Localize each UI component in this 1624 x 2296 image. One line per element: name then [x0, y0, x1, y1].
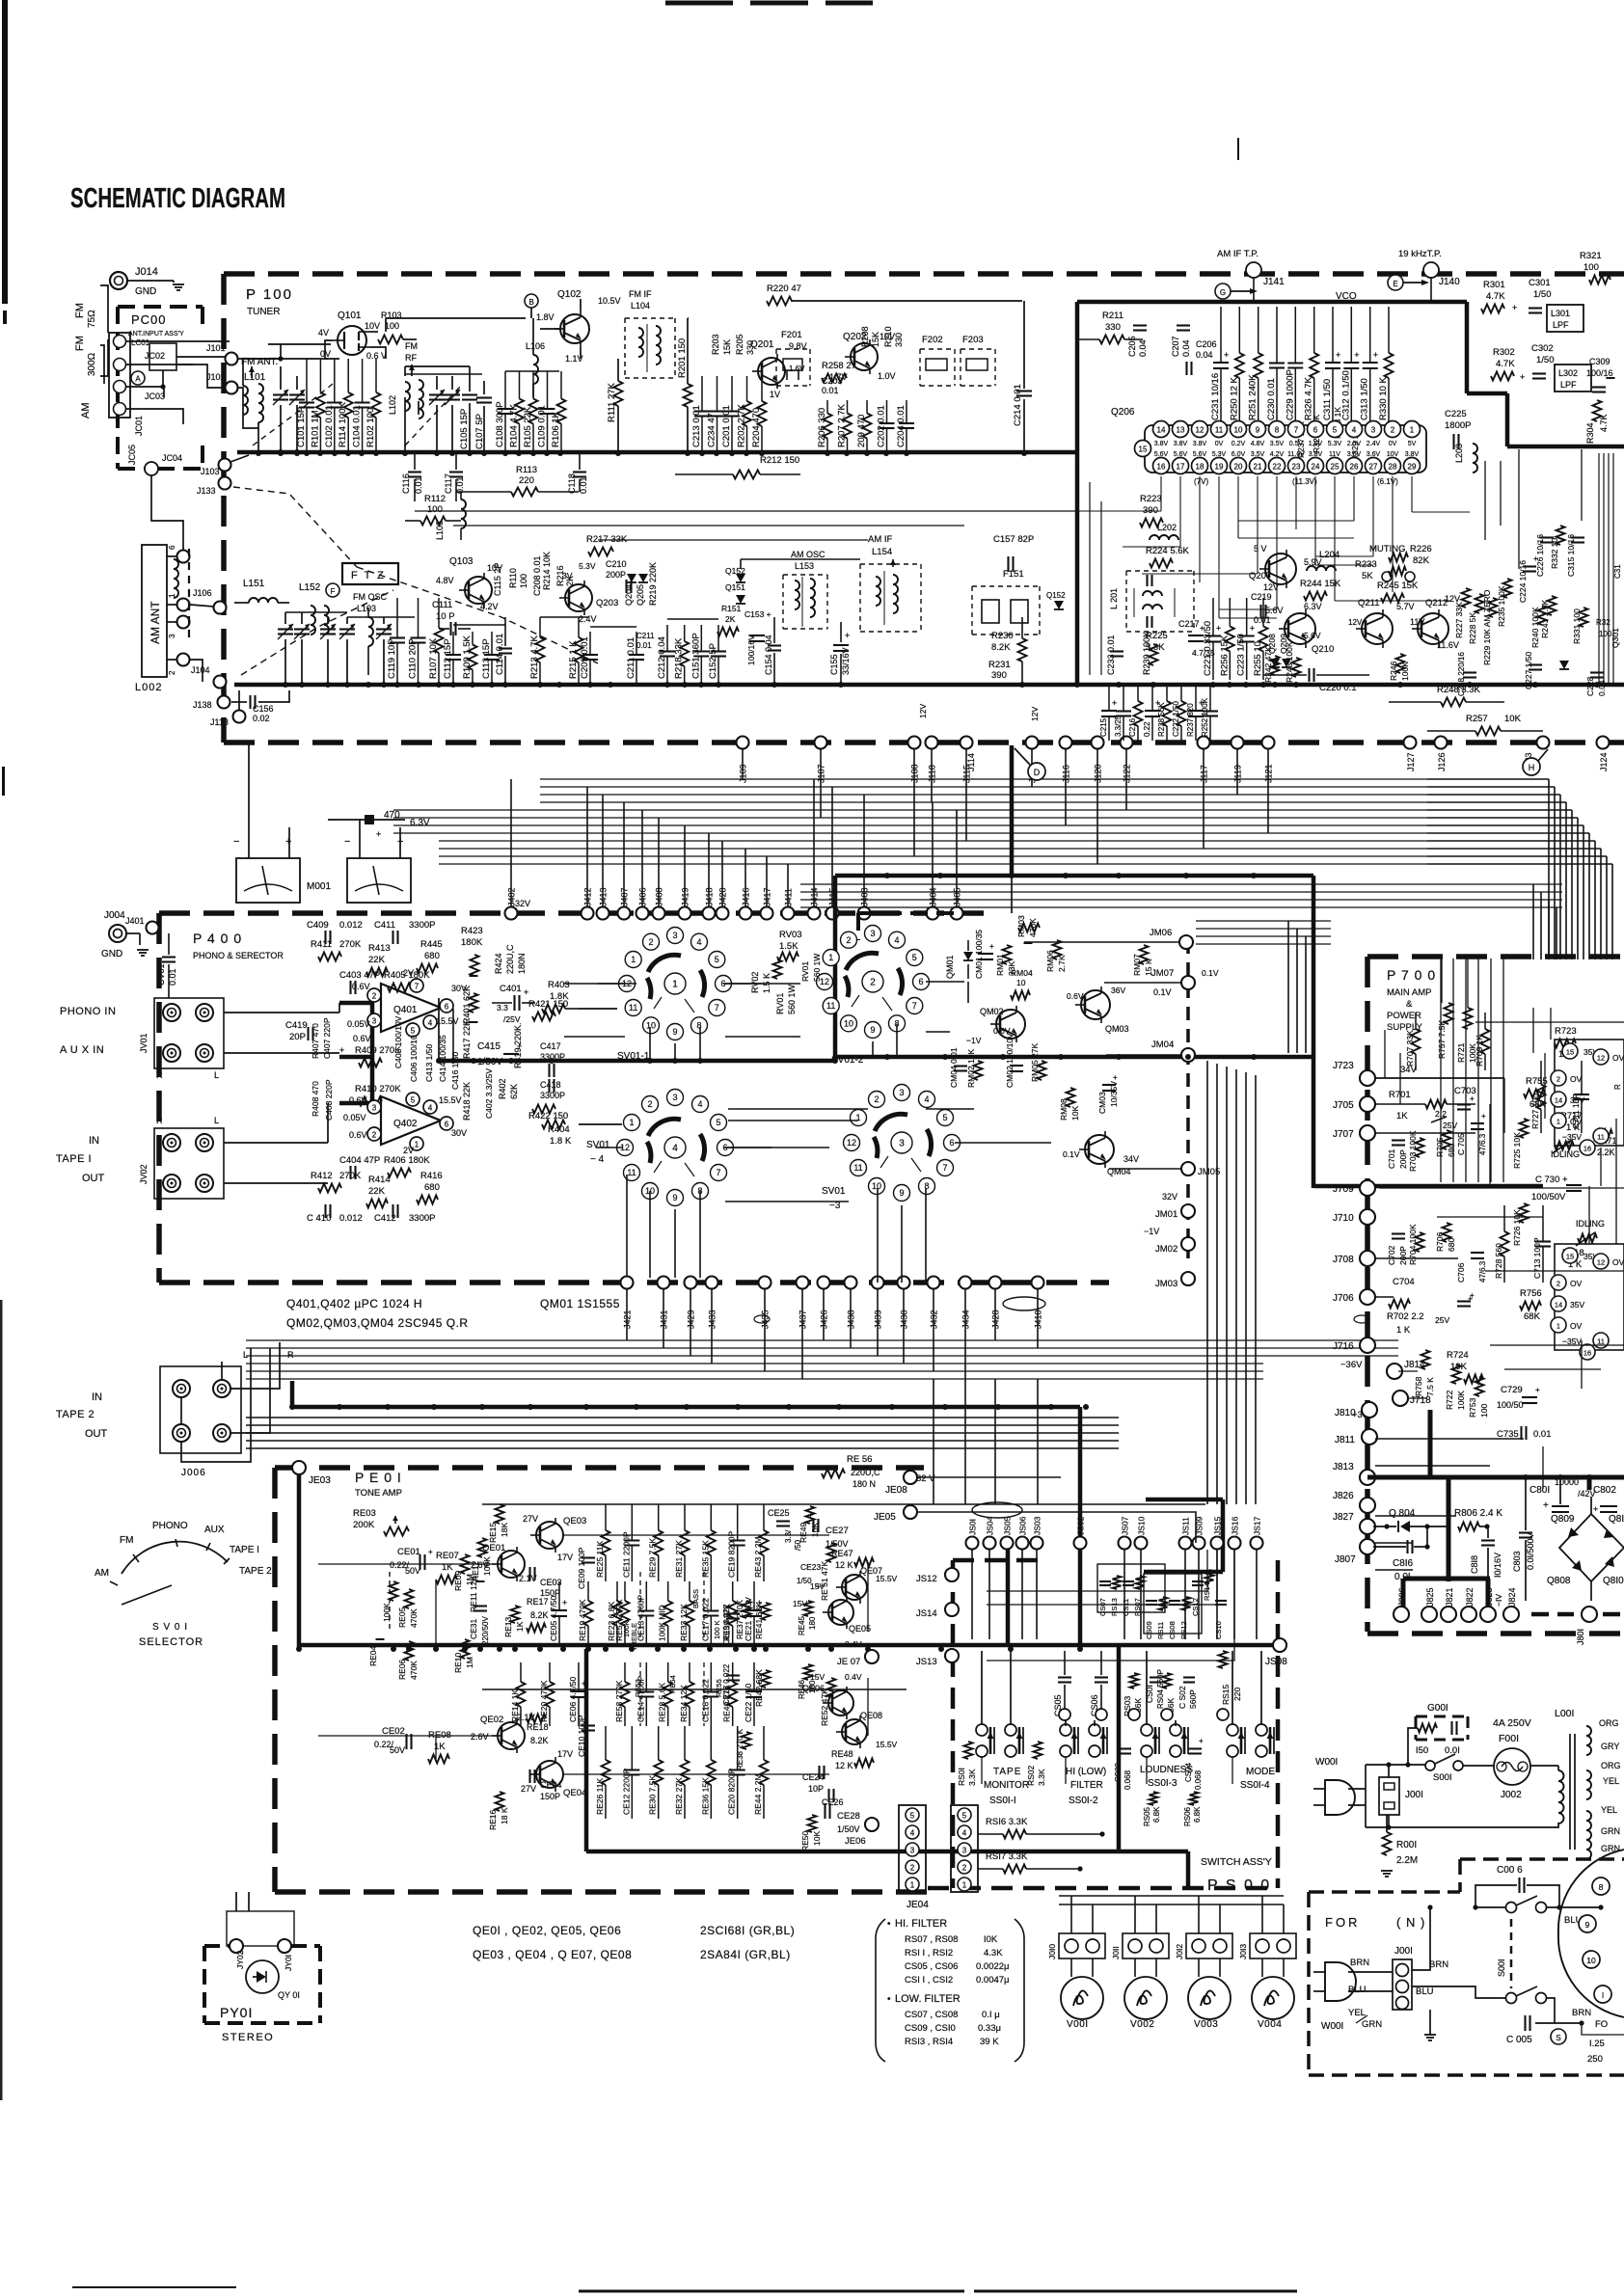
svg-text:RS0I: RS0I [957, 1768, 966, 1786]
svg-text:Q401,Q402 µPC 1024 H: Q401,Q402 µPC 1024 H [286, 1297, 422, 1310]
svg-text:L103: L103 [357, 604, 376, 613]
svg-text:C205: C205 [1127, 336, 1137, 357]
svg-text:&: & [1406, 999, 1413, 1010]
svg-text:CE31: CE31 [469, 1618, 478, 1639]
svg-text:100K MID: 100K MID [658, 1605, 667, 1641]
svg-text:J824: J824 [1507, 1587, 1517, 1607]
svg-text:11: 11 [1597, 1133, 1605, 1142]
svg-text:Q102: Q102 [557, 289, 582, 300]
svg-text:R102 100: R102 100 [365, 408, 376, 447]
svg-text:Q301: Q301 [1610, 628, 1620, 648]
svg-text:C233 0.01: C233 0.01 [1106, 635, 1116, 675]
svg-text:28: 28 [1389, 463, 1397, 472]
svg-text:PY0I: PY0I [220, 2005, 253, 2020]
svg-text:Q101: Q101 [338, 311, 362, 321]
svg-text:CS07: CS07 [1098, 1598, 1107, 1616]
block L302 LPF [1555, 365, 1591, 392]
svg-text:R223: R223 [1140, 494, 1162, 504]
transistor QE04 [536, 1761, 563, 1788]
svg-text:C229 1000P: C229 1000P [1285, 369, 1295, 420]
svg-text:RF: RF [405, 353, 417, 363]
resistor RS15 [1219, 1651, 1228, 1668]
svg-text:C211: C211 [636, 632, 655, 640]
svg-text:R403: R403 [548, 980, 570, 990]
svg-text:1: 1 [1410, 426, 1415, 435]
svg-text:I0/16V: I0/16V [1493, 1553, 1502, 1578]
diode QY01 [246, 1960, 279, 1993]
svg-text:JY02: JY02 [235, 1950, 245, 1969]
connector JE06 [865, 1818, 879, 1831]
svg-text:R445: R445 [420, 939, 443, 950]
svg-text:QE04: QE04 [563, 1788, 586, 1798]
wire Q102 [530, 308, 532, 318]
svg-text:J138: J138 [193, 700, 212, 710]
svg-text:7: 7 [1294, 426, 1299, 435]
svg-text:QE01: QE01 [482, 1543, 505, 1553]
svg-text:100: 100 [385, 321, 399, 331]
svg-text:50V: 50V [390, 1745, 405, 1755]
svg-text:JE06: JE06 [845, 1836, 866, 1847]
svg-text:3: 3 [870, 929, 875, 938]
svg-text:C729: C729 [1501, 1385, 1523, 1395]
svg-text:4A 250V: 4A 250V [1493, 1717, 1531, 1729]
svg-text:20: 20 [1234, 463, 1243, 472]
svg-text:L105: L105 [435, 521, 445, 540]
capacitor C005 [1524, 2015, 1526, 2031]
svg-text:R416: R416 [420, 1171, 443, 1181]
svg-text:1: 1 [672, 980, 678, 990]
svg-text:J0I2: J0I2 [1175, 1944, 1184, 1959]
svg-text:JE04: JE04 [907, 1900, 929, 1910]
svg-text:9: 9 [899, 1188, 904, 1198]
svg-text:J823: J823 [1484, 1587, 1494, 1607]
svg-text:QE03 , QE04 , Q E07, QE08: QE03 , QE04 , Q E07, QE08 [473, 1948, 632, 1961]
svg-text:RE17: RE17 [527, 1597, 549, 1607]
svg-text:JS11: JS11 [1181, 1517, 1191, 1535]
connector JC05 [145, 462, 158, 475]
svg-text:G00I: G00I [1427, 1703, 1448, 1714]
svg-text:P 7 0 0: P 7 0 0 [1387, 967, 1436, 983]
svg-text:5.3V: 5.3V [579, 561, 596, 571]
svg-text:4V: 4V [318, 328, 329, 338]
svg-text:11: 11 [1215, 426, 1224, 435]
svg-text:L204: L204 [1319, 550, 1340, 560]
svg-text:2: 2 [874, 1094, 879, 1104]
svg-text:J80I: J80I [1576, 1629, 1585, 1645]
svg-text:220/50V: 220/50V [481, 1616, 490, 1645]
node D [1028, 763, 1045, 780]
svg-text:JV01: JV01 [139, 1033, 149, 1053]
svg-text:C225: C225 [1445, 409, 1467, 419]
transistor QM03 [1081, 990, 1110, 1019]
transistor Q202 [851, 343, 878, 370]
wire pe01 rails [482, 1503, 907, 1505]
svg-text:209 470: 209 470 [856, 415, 867, 447]
svg-text:200P: 200P [1398, 1149, 1408, 1169]
wire p700 vlines [1532, 1008, 1534, 1053]
svg-text:RE36 15K: RE36 15K [700, 1777, 710, 1815]
svg-text:2: 2 [647, 1099, 652, 1109]
svg-text:100/50V: 100/50V [1531, 1192, 1566, 1202]
transistor QE05 [828, 1600, 853, 1625]
block PE01 dashed bottom [275, 1889, 928, 1895]
svg-text:RV02: RV02 [750, 972, 760, 993]
svg-text:0.1V: 0.1V [1063, 1149, 1080, 1159]
svg-text:R406 180K: R406 180K [384, 1155, 430, 1166]
wire tuner right vlines [1484, 461, 1486, 540]
svg-text:J00I: J00I [1405, 1790, 1423, 1800]
svg-text:QE06: QE06 [802, 1684, 825, 1693]
connector row P400 bottom [621, 1277, 634, 1289]
capacitor gang AM1 [278, 628, 293, 630]
svg-text:4.2V: 4.2V [480, 602, 499, 611]
svg-text:R226: R226 [1410, 544, 1432, 554]
svg-text:100 K: 100 K [713, 1620, 721, 1639]
svg-text:3: 3 [168, 634, 176, 638]
svg-text:FOR: FOR [1325, 1915, 1360, 1930]
svg-text:4: 4 [428, 1019, 433, 1028]
svg-text:GRN: GRN [1601, 1826, 1620, 1836]
connector JS08 [1273, 1638, 1286, 1652]
svg-text:F202: F202 [922, 335, 943, 345]
svg-text:12V: 12V [1030, 707, 1040, 721]
heavy net rect [835, 874, 1313, 878]
connector J810 [1362, 1402, 1377, 1418]
svg-text:10: 10 [872, 1181, 881, 1191]
svg-text:R326 4.7K: R326 4.7K [1304, 376, 1314, 420]
svg-text:R212 150: R212 150 [760, 455, 799, 466]
svg-text:+: + [1470, 1094, 1475, 1103]
svg-text:Q204: Q204 [624, 584, 634, 606]
svg-text:C80I: C80I [1529, 1485, 1550, 1496]
svg-text:JS17: JS17 [1253, 1516, 1262, 1535]
svg-text:C 730 +: C 730 + [1535, 1175, 1568, 1185]
heavy net psu [1367, 1475, 1624, 1480]
svg-text:SV01-1: SV01-1 [617, 1051, 650, 1062]
svg-text:JS06: JS06 [1018, 1516, 1028, 1535]
svg-text:R418 22K: R418 22K [462, 1082, 472, 1121]
svg-text:+: + [1199, 1737, 1204, 1745]
svg-text:J117: J117 [1200, 765, 1209, 783]
svg-text:7: 7 [715, 1003, 719, 1013]
svg-text:− 4: − 4 [590, 1154, 605, 1165]
svg-text:5.7V: 5.7V [1396, 602, 1415, 611]
svg-text:12V: 12V [1348, 618, 1363, 627]
svg-text:4: 4 [1352, 426, 1357, 435]
svg-text:RS11: RS11 [1156, 1622, 1165, 1639]
svg-text:R257: R257 [1466, 714, 1488, 724]
svg-text:680: 680 [1447, 1238, 1456, 1252]
svg-text:R412: R412 [311, 1171, 333, 1181]
svg-text:1.6V: 1.6V [1309, 441, 1323, 447]
svg-text:JS15: JS15 [1213, 1516, 1223, 1535]
capacitor tuning gang FM2 [289, 393, 305, 395]
svg-text:2.4V: 2.4V [579, 614, 597, 624]
svg-text:11V: 11V [1410, 617, 1424, 627]
svg-text:AM: AM [80, 403, 92, 419]
svg-text:(6.1V): (6.1V) [1377, 477, 1398, 486]
svg-text:9: 9 [1585, 1920, 1590, 1930]
svg-text:4: 4 [672, 1144, 678, 1154]
svg-text:JC03: JC03 [145, 392, 165, 401]
svg-text:+: + [1112, 698, 1117, 708]
svg-text:JM06: JM06 [1150, 928, 1172, 938]
svg-text:1: 1 [629, 1118, 634, 1127]
svg-text:C406 100/10: C406 100/10 [409, 1035, 419, 1082]
svg-text:CE18 0.022: CE18 0.022 [700, 1679, 710, 1722]
svg-text:GND: GND [135, 286, 156, 297]
svg-text:+: + [808, 1511, 813, 1520]
svg-text:−IV: −IV [1494, 1594, 1503, 1607]
wire p400 mid rail [169, 997, 540, 999]
node G [1215, 284, 1231, 299]
svg-text:R424: R424 [494, 953, 503, 974]
svg-text:C152 5P: C152 5P [708, 643, 718, 679]
svg-text:RE52 47K: RE52 47K [820, 1688, 829, 1726]
svg-text:J122: J122 [1123, 764, 1132, 783]
svg-text:ORG: ORG [1599, 1718, 1619, 1728]
svg-text:22: 22 [1273, 463, 1282, 472]
connector tape1 jacks [154, 1128, 224, 1199]
node F [326, 583, 339, 597]
svg-text:RV03: RV03 [779, 930, 802, 940]
svg-text:BRN: BRN [1429, 1959, 1448, 1970]
oval JS05 [972, 1502, 1022, 1518]
svg-text:3: 3 [899, 1139, 905, 1149]
svg-text:R204 470: R204 470 [751, 408, 762, 447]
svg-text:C8I6: C8I6 [1393, 1558, 1414, 1569]
svg-text:10.5V: 10.5V [598, 296, 621, 306]
svg-text:J014: J014 [135, 266, 158, 278]
cluster row2 osc [396, 598, 398, 628]
svg-text:JM01: JM01 [1155, 1209, 1177, 1220]
svg-text:CS11: CS11 [1122, 1599, 1130, 1616]
connector strip JE04 a [899, 1805, 926, 1892]
block FTZ box [342, 563, 398, 584]
svg-text:C234 47: C234 47 [707, 413, 717, 447]
svg-text:+: + [1216, 624, 1221, 634]
cluster row2 am det [589, 632, 591, 645]
svg-text:6: 6 [445, 1121, 449, 1129]
svg-text:P S 0 0: P S 0 0 [1207, 1877, 1271, 1894]
svg-text:CE15 0.022: CE15 0.022 [722, 1604, 731, 1645]
wire pe01 to ps00 [907, 1503, 1205, 1505]
svg-text:L101: L101 [244, 372, 266, 383]
svg-text:100: 100 [1479, 1404, 1489, 1418]
svg-text:QE0I , QE02, QE05, QE06: QE0I , QE02, QE05, QE06 [473, 1924, 621, 1937]
svg-text:JE 07: JE 07 [837, 1657, 860, 1667]
svg-text:JY0I: JY0I [284, 1955, 293, 1971]
svg-text:QM01 1S1555: QM01 1S1555 [540, 1297, 620, 1310]
svg-text:JS16: JS16 [1231, 1516, 1240, 1535]
svg-text:0.5V: 0.5V [1289, 441, 1304, 447]
svg-text:LC01: LC01 [131, 338, 150, 347]
svg-text:QE03: QE03 [563, 1516, 586, 1526]
svg-text:R215 1 K: R215 1 K [568, 640, 579, 679]
svg-text:W00I: W00I [1315, 1757, 1338, 1768]
svg-text:15: 15 [1566, 1253, 1574, 1261]
svg-text:3: 3 [1371, 426, 1376, 435]
svg-text:2.5V: 2.5V [1347, 441, 1362, 447]
scan artifact left bar [2, 0, 8, 304]
svg-text:J709: J709 [1333, 1184, 1354, 1195]
svg-text:YEL: YEL [1603, 1776, 1619, 1786]
svg-text:JS13: JS13 [916, 1657, 937, 1667]
svg-text:R113: R113 [516, 465, 537, 475]
svg-text:11: 11 [627, 1168, 636, 1177]
connector row tuner right [1404, 737, 1417, 749]
wire fan right drops [1427, 778, 1549, 780]
svg-text:22K: 22K [368, 955, 386, 965]
svg-text:G: G [1220, 288, 1226, 297]
svg-text:J401: J401 [125, 916, 145, 926]
svg-text:0.012: 0.012 [339, 1213, 363, 1224]
switch SS01-3 loudness [1141, 1724, 1152, 1736]
svg-text:RE53: RE53 [634, 1679, 642, 1697]
svg-text:0.0047μ: 0.0047μ [976, 1975, 1010, 1985]
block P100 dashed border top [224, 271, 1624, 277]
svg-text:LOW. FILTER: LOW. FILTER [895, 1993, 961, 2005]
transistor QE02 [498, 1722, 525, 1749]
svg-text:J806: J806 [1397, 1587, 1407, 1607]
svg-text:C231 10/16: C231 10/16 [1210, 373, 1221, 420]
svg-text:Q211: Q211 [1358, 598, 1380, 608]
ic power pack upper [1555, 1040, 1624, 1146]
svg-text:Q8I: Q8I [1609, 1514, 1624, 1525]
svg-text:27: 27 [1369, 463, 1378, 472]
svg-text:C153 +: C153 + [744, 609, 771, 619]
svg-text:CS10: CS10 [1214, 1621, 1223, 1639]
svg-text:10: 10 [646, 1021, 656, 1031]
svg-text:JC02: JC02 [145, 351, 165, 361]
svg-text:17V: 17V [557, 1553, 573, 1562]
svg-text:62K: 62K [509, 1084, 519, 1099]
svg-text:C302: C302 [1531, 343, 1554, 354]
svg-text:12V: 12V [918, 704, 928, 718]
connector row P400 top [505, 907, 518, 920]
svg-text:+: + [562, 1598, 567, 1607]
svg-text:560 1W: 560 1W [787, 984, 797, 1014]
svg-text:V004: V004 [1258, 2019, 1282, 2030]
gnd N [1424, 2034, 1436, 2036]
svg-text:1K: 1K [515, 1621, 525, 1632]
svg-text:2K: 2K [725, 614, 736, 624]
svg-text:J133: J133 [197, 486, 216, 496]
svg-text:CS05 , CS06: CS05 , CS06 [905, 1961, 958, 1972]
svg-text:−: − [233, 836, 239, 848]
svg-text:7: 7 [942, 1163, 947, 1173]
svg-text:0.4V: 0.4V [845, 1639, 862, 1649]
svg-text:S00I: S00I [1497, 1958, 1506, 1977]
svg-text:S: S [1556, 2034, 1560, 2042]
svg-text:270K: 270K [339, 1171, 362, 1181]
svg-text:BLU: BLU [1348, 1985, 1367, 1995]
connector strip JE04 b [951, 1805, 978, 1892]
svg-text:0.6V: 0.6V [349, 1130, 367, 1140]
svg-text:0.04: 0.04 [1181, 339, 1191, 357]
connector power socket [1558, 1850, 1624, 2017]
svg-text:+: + [1373, 350, 1378, 360]
wire tuner row1 rails [243, 358, 328, 360]
svg-text:CM03: CM03 [1097, 1092, 1107, 1114]
svg-text:V00I: V00I [1067, 2019, 1089, 2030]
heavy bus tape2 [290, 1381, 295, 1407]
svg-text:PHONO: PHONO [152, 1521, 188, 1531]
svg-text:13: 13 [1177, 426, 1185, 435]
svg-text:0.0022μ: 0.0022μ [976, 1961, 1010, 1972]
svg-text:R758: R758 [1414, 1376, 1423, 1396]
svg-text:1 K: 1 K [1396, 1325, 1411, 1336]
svg-text:JE05: JE05 [874, 1512, 896, 1523]
svg-text:RM05 27K: RM05 27K [1030, 1043, 1040, 1082]
svg-text:RS12: RS12 [1179, 1621, 1188, 1639]
connector jack strip PC00 [109, 333, 130, 418]
svg-text:R248 3.3K: R248 3.3K [1437, 685, 1481, 695]
svg-text:/50: /50 [794, 1539, 802, 1551]
svg-text:V002: V002 [1130, 2019, 1154, 2030]
svg-text:R727 100: R727 100 [1530, 1094, 1540, 1129]
svg-text:C409: C409 [307, 920, 329, 931]
connector J001 N [1393, 1959, 1412, 2010]
svg-text:+: + [582, 1679, 586, 1688]
transistor QM04 [1085, 1135, 1114, 1164]
svg-text:−1V: −1V [966, 1036, 982, 1045]
svg-text:47/6.3: 47/6.3 [1478, 1133, 1487, 1155]
svg-text:R245 15K: R245 15K [1377, 581, 1419, 591]
svg-text:10: 10 [844, 1019, 853, 1029]
inductor L101 [243, 386, 248, 395]
svg-text:8: 8 [1275, 426, 1280, 435]
connector tape2 jacks [160, 1366, 241, 1453]
capacitor gang AM2 [294, 628, 310, 630]
wire heavy jack bus [370, 1001, 375, 1104]
svg-text:25: 25 [1331, 463, 1340, 472]
svg-text:C402 3.3/25V: C402 3.3/25V [484, 1068, 494, 1119]
svg-text:0.01: 0.01 [822, 386, 839, 395]
svg-text:ORG: ORG [1601, 1761, 1621, 1770]
svg-text:19 kHzT.P.: 19 kHzT.P. [1398, 249, 1442, 259]
svg-text:4: 4 [428, 1104, 433, 1113]
svg-text:L302: L302 [1558, 368, 1578, 378]
block PS00 dashed left [951, 1560, 956, 1888]
svg-text:12: 12 [1196, 426, 1204, 435]
svg-text:C202 0.01: C202 0.01 [877, 405, 887, 447]
svg-text:22K: 22K [368, 1186, 386, 1197]
svg-text:R421 150: R421 150 [528, 999, 568, 1010]
svg-text:F T Z: F T Z [351, 570, 386, 581]
svg-text:TAPE I: TAPE I [230, 1545, 259, 1555]
svg-text:C217: C217 [1178, 619, 1200, 629]
svg-text:2.7K: 2.7K [1057, 955, 1067, 972]
node dots tape2 bus [289, 1404, 295, 1410]
svg-text:2: 2 [1391, 426, 1395, 435]
svg-text:3: 3 [899, 1088, 904, 1097]
svg-text:C209 0.01: C209 0.01 [580, 636, 590, 679]
svg-text:32 V: 32 V [916, 1473, 935, 1484]
connector J718 [1393, 1391, 1408, 1406]
svg-text:J810: J810 [1335, 1408, 1356, 1418]
svg-text:R806 2.4 K: R806 2.4 K [1454, 1508, 1502, 1519]
svg-text:IN: IN [92, 1391, 102, 1403]
svg-text:+: + [1593, 1504, 1598, 1514]
svg-text:J116: J116 [1062, 765, 1071, 783]
dashed gang link AM row [241, 590, 393, 675]
scan artifact top marks [665, 1, 733, 6]
svg-text:SV01: SV01 [822, 1186, 846, 1197]
svg-text:1: 1 [631, 955, 636, 964]
svg-text:RSI I , RSI2: RSI I , RSI2 [905, 1948, 953, 1958]
connector AM ANT pins [177, 551, 190, 563]
